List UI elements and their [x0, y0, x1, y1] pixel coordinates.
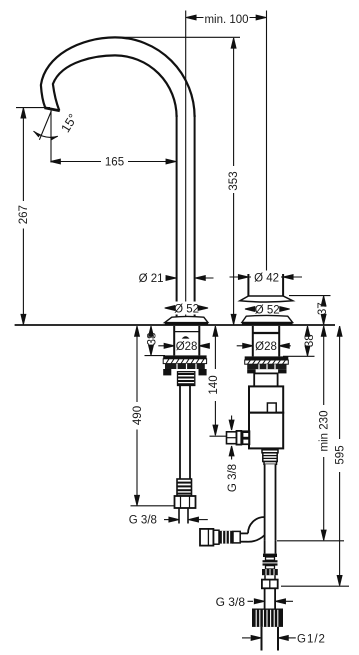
spout column right edge: [194, 115, 196, 317]
dimension 490: [131, 326, 144, 506]
left mounting nut: [165, 364, 205, 369]
dimension min. 100: [186, 11, 267, 24]
svg-text:min 230: min 230: [319, 411, 331, 452]
right nut feet: [247, 369, 255, 373]
bottom pipe stub: [261, 627, 263, 651]
hose end nut: [200, 529, 213, 546]
hose branch arcs: [248, 517, 264, 533]
15 degree arc with arrows: [33, 131, 58, 140]
valve body clip: [267, 403, 276, 413]
side outlet nut: [241, 430, 250, 445]
svg-text:Ø 21: Ø 21: [139, 273, 164, 285]
right shank: [252, 326, 254, 357]
dimension diameter 42: [230, 271, 303, 284]
right upper tube: [254, 373, 277, 386]
dimension diameter 28 right: [237, 340, 291, 352]
dimension 353: [227, 38, 240, 325]
svg-text:38: 38: [147, 333, 159, 346]
bottom pipe G38: [264, 588, 266, 608]
valve body upper: [249, 386, 283, 412]
dimension 267: [17, 108, 30, 325]
extension line outlet underside: [16, 107, 50, 109]
extension line knob skirt top: [289, 295, 331, 297]
595 extension line: [281, 585, 349, 587]
38 left extension line: [145, 355, 166, 357]
svg-text:140: 140: [208, 375, 220, 394]
dimension diameter 28 left: [158, 340, 209, 352]
svg-text:15°: 15°: [58, 111, 80, 134]
deck line: [15, 324, 335, 326]
svg-text:G 3/8: G 3/8: [227, 464, 239, 492]
G 3/8 left hose label arrows: [164, 517, 208, 522]
svg-text:Ø28: Ø28: [255, 341, 277, 353]
dimension diameter 52 right: [245, 303, 290, 316]
right mounting nut: [247, 364, 286, 369]
dimension diameter 52 left: [165, 302, 208, 315]
svg-text:Ø28: Ø28: [176, 341, 198, 353]
spout column left edge: [176, 115, 178, 317]
G 3/8 side outlet leader: [229, 416, 234, 460]
dimension 37: [318, 296, 330, 325]
G 1/2 arrows: [242, 636, 296, 641]
outlet vertical reference line: [50, 111, 52, 163]
left hose: [179, 386, 181, 480]
dimension 38 left: [146, 326, 158, 355]
svg-text:595: 595: [334, 445, 346, 464]
right mounting washer: [245, 356, 289, 360]
svg-text:38: 38: [304, 334, 316, 347]
side outlet hex face: [237, 431, 242, 445]
spout inner curve: [53, 55, 177, 117]
svg-text:min. 100: min. 100: [204, 14, 248, 26]
knob cylinder: [247, 274, 249, 296]
left shank dome detail: [182, 336, 190, 338]
handle centerline: [266, 11, 268, 279]
bottom crimp stack: [262, 554, 278, 576]
bottom narrow pipe: [264, 575, 266, 579]
knob skirt: [240, 296, 293, 302]
490 extension line: [131, 505, 175, 507]
dimension 595: [333, 326, 347, 586]
spout centerline: [185, 11, 187, 319]
svg-text:G1/2: G1/2: [297, 633, 326, 645]
dimension 140: [208, 326, 220, 435]
right cartridge line: [258, 372, 276, 374]
valve body lower: [249, 413, 283, 449]
right escutcheon: [242, 315, 293, 322]
dimension min 230: [317, 326, 331, 540]
left stem line: [179, 371, 194, 373]
spout outer curve: [41, 37, 195, 117]
dimension 38 right: [303, 326, 315, 356]
left mounting flange hatched: [163, 359, 206, 364]
left escutcheon: [165, 316, 208, 322]
valve crimp: [262, 450, 278, 465]
svg-text:165: 165: [105, 157, 124, 169]
left hose end nut: [175, 496, 196, 508]
svg-text:Ø 52: Ø 52: [174, 304, 199, 316]
spout outlet face: [44, 108, 59, 111]
svg-text:490: 490: [132, 406, 144, 425]
G 3/8 bottom arrows: [248, 599, 294, 604]
right mounting flange hatched: [245, 360, 289, 364]
left pipe end: [178, 508, 180, 524]
left hose crimp: [177, 479, 192, 496]
svg-text:Ø 42: Ø 42: [254, 273, 279, 285]
left mounting washer: [163, 355, 206, 358]
left shank: [173, 326, 175, 356]
hose crimp horizontal: [213, 530, 240, 544]
dimension diameter 21: [166, 276, 214, 281]
bottom square block: [262, 580, 278, 589]
right pipe: [265, 464, 276, 540]
extension line spout apex: [118, 36, 240, 38]
min 230 extension line: [277, 540, 344, 542]
left nut feet: [163, 369, 171, 375]
15 degree slant line: [39, 111, 51, 140]
svg-text:37: 37: [317, 302, 329, 315]
side outlet stub: [227, 432, 237, 444]
left hose nipple: [178, 372, 195, 386]
union nut: [252, 609, 283, 627]
svg-text:G 3/8: G 3/8: [129, 515, 157, 527]
140 extension line: [210, 435, 229, 437]
svg-text:353: 353: [228, 171, 240, 190]
dimension 165: [51, 155, 177, 168]
38 right extension line: [283, 355, 315, 357]
svg-text:267: 267: [18, 205, 30, 224]
svg-text:G 3/8: G 3/8: [216, 595, 246, 609]
svg-text:Ø 52: Ø 52: [255, 305, 280, 317]
bottom pipe continuation: [264, 541, 266, 554]
